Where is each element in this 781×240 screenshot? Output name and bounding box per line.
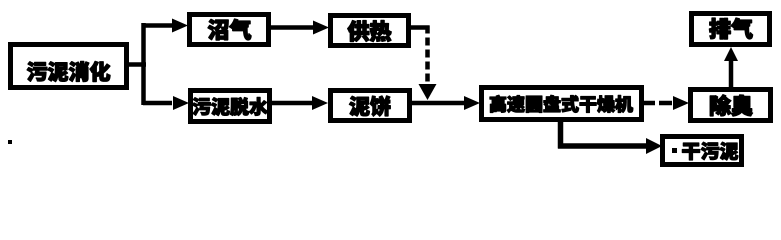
label: 除臭 bbox=[710, 95, 752, 116]
arrowhead: into 除臭 bbox=[673, 96, 689, 110]
wire: 供热 right bbox=[409, 25, 430, 30]
label: 高速圆盘式干燥机 bbox=[490, 95, 633, 112]
box: 干污泥 (dry sludge) bbox=[663, 137, 742, 165]
arrowhead: into 排气 bbox=[724, 47, 738, 61]
label: 泥饼 bbox=[349, 96, 390, 116]
wire: top branch to 沼气 bbox=[143, 23, 172, 28]
wire: down-then-right to 干污泥 bbox=[558, 143, 647, 149]
wire: junction vertical split bbox=[141, 23, 146, 105]
process flow diagram: sludge digestion & drying bbox=[0, 0, 781, 182]
box: 污泥消化 (sludge digestion) bbox=[11, 45, 127, 88]
arrowhead: into 沼气 bbox=[172, 19, 188, 33]
box: 除臭 (deodorization) bbox=[691, 90, 771, 121]
wire: box1 right to junction bbox=[126, 62, 146, 67]
wire: 泥饼 to dryer bbox=[410, 101, 464, 106]
label: 排气 bbox=[709, 18, 752, 39]
box: 沼气 (biogas) bbox=[190, 15, 269, 45]
wire: 污泥脱水 to 泥饼 bbox=[270, 101, 312, 106]
arrowhead: into 泥饼 bbox=[312, 96, 328, 110]
stray dot (scan speck) bbox=[8, 140, 12, 144]
label: 供热 bbox=[348, 21, 391, 42]
arrowhead: into dryer bbox=[464, 96, 480, 110]
arrowhead: into 干污泥 bbox=[646, 138, 662, 154]
box: 高速圆盘式干燥机 (high-speed disc dryer) bbox=[482, 88, 642, 120]
label: 污泥消化 bbox=[27, 61, 110, 81]
wire: 除臭 up to 排气 bbox=[729, 60, 734, 89]
wire: heat line down (dashed) bbox=[425, 26, 430, 87]
arrowhead: into 污泥脱水 bbox=[173, 96, 189, 110]
label: 污泥脱水 bbox=[193, 97, 268, 115]
wire: 沼气 to 供热 bbox=[269, 25, 313, 30]
wire: dryer down bbox=[558, 120, 564, 149]
box: 污泥脱水 (sludge dewatering) bbox=[191, 91, 270, 122]
wire: bottom branch to 污泥脱水 bbox=[143, 101, 172, 106]
small dot before 干污泥 bbox=[672, 148, 677, 153]
wire: dryer to 除臭 (scan-broken dash) bbox=[642, 101, 673, 106]
arrowhead: into 供热 bbox=[313, 21, 329, 35]
box: 排气 (exhaust gas) bbox=[692, 14, 770, 45]
box: 供热 (heat supply) bbox=[331, 16, 409, 46]
box: 泥饼 (sludge cake) bbox=[331, 91, 410, 121]
label: 沼气 bbox=[208, 19, 251, 40]
arrowhead: heat into dryer line bbox=[419, 84, 437, 100]
label: 干污泥 bbox=[682, 142, 738, 160]
